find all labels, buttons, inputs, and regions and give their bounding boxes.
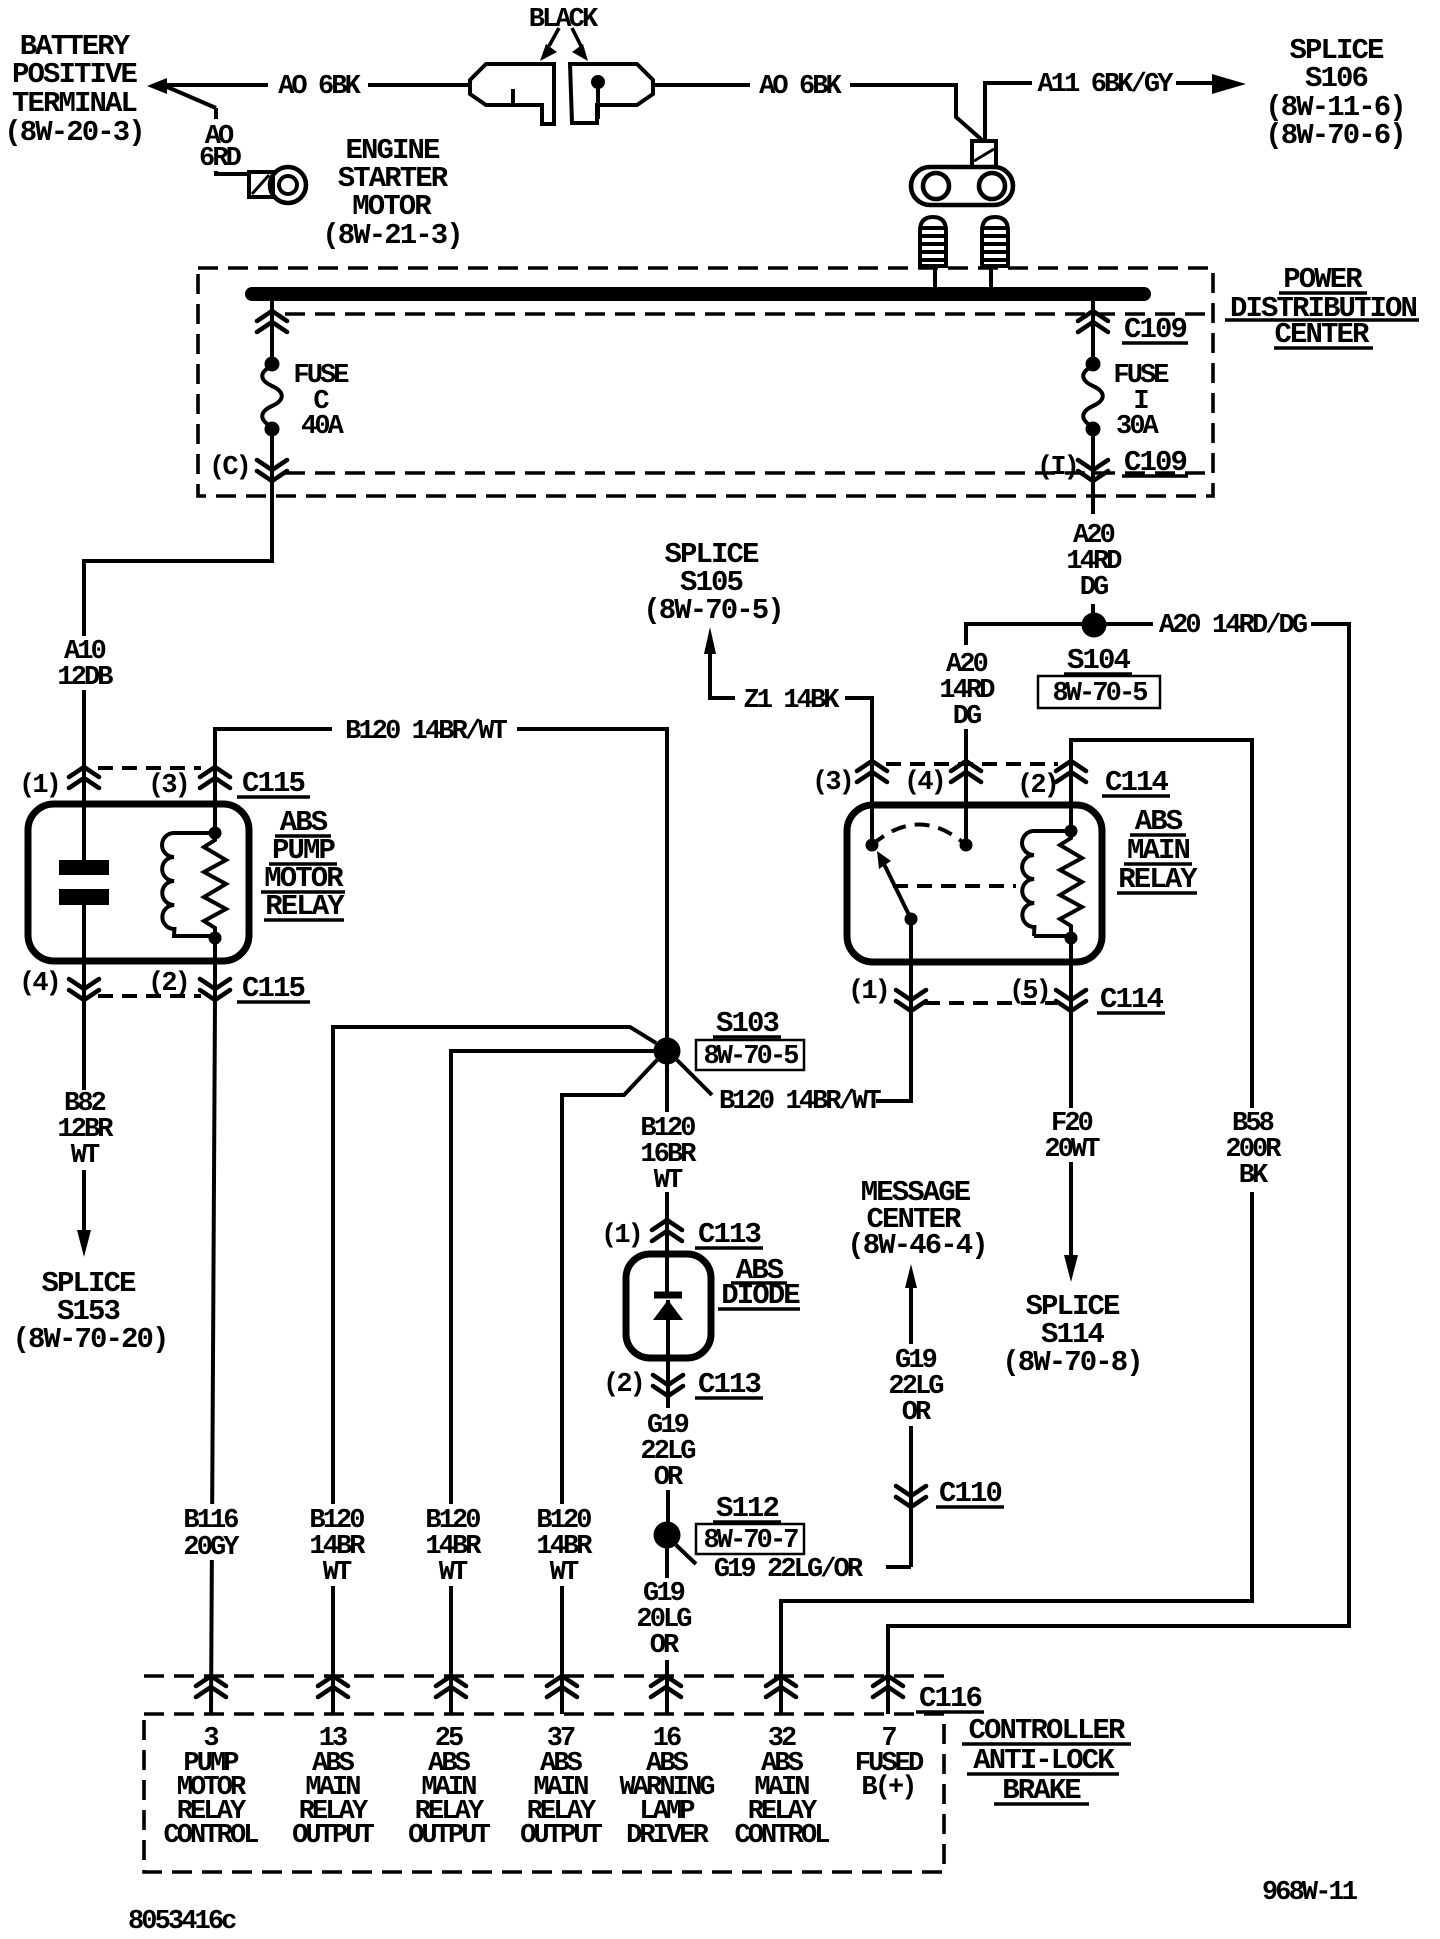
reference box 8W-70-5 at S103 (696, 1040, 804, 1072)
label 968W-11 (1262, 1878, 1358, 1908)
svg-text:S112: S112 (716, 1492, 779, 1525)
pin label (4) C114 (904, 768, 944, 798)
connector chevron C116 pin 25 (436, 1676, 466, 1697)
diode element (653, 1295, 683, 1320)
wire label AO 6BK left (278, 72, 362, 102)
label MESSAGE CENTER (847, 1176, 987, 1262)
wire fuse I to connector I (1091, 429, 1095, 613)
svg-text:WT: WT (550, 1558, 579, 1588)
svg-text:DG: DG (1080, 573, 1108, 603)
svg-text:BRAKE: BRAKE (1002, 1774, 1081, 1807)
svg-text:OR: OR (654, 1463, 684, 1493)
svg-text:DRIVER: DRIVER (626, 1821, 710, 1851)
wire label A11 6BK/GY (1037, 70, 1174, 100)
wire pin3 into switch (870, 761, 874, 845)
BLACK callout arrows (540, 28, 588, 61)
connector chevron C115 pin 4 (69, 979, 99, 1000)
connector chevron (C) (257, 460, 287, 481)
C116 connector dashed line (144, 1674, 944, 1678)
in-line connector C100 left half (470, 64, 554, 124)
switch arm with arrowhead (877, 851, 918, 926)
stud screw left (920, 217, 946, 266)
svg-text:AO 6BK: AO 6BK (759, 72, 843, 102)
pin 37 labels (520, 1724, 603, 1851)
wire S103 branch to C116 pin 37 (562, 1060, 657, 1714)
svg-text:(4): (4) (19, 969, 59, 999)
node coil top (209, 827, 222, 840)
wire into diode (665, 1220, 669, 1295)
wire Z1 14BK from splice S105 (710, 652, 872, 761)
label POWER DISTRIBUTION CENTER (1230, 263, 1417, 351)
connector label C109 bottom (1124, 446, 1187, 479)
wire label B120 14BR/WT horizontal (345, 717, 507, 747)
connector chevron C115 pin 3 (200, 767, 230, 788)
svg-text:G19 22LG/OR: G19 22LG/OR (714, 1555, 864, 1585)
svg-text:OUTPUT: OUTPUT (520, 1821, 603, 1851)
svg-text:A20 14RD/DG: A20 14RD/DG (1159, 611, 1307, 641)
connector label S104 (1067, 644, 1131, 677)
wire B120 16BR WT S103 to diode (665, 1064, 669, 1220)
connector chevron C109 (I) (1078, 460, 1108, 481)
svg-text:WT: WT (439, 1558, 468, 1588)
label ABS DIODE (721, 1254, 800, 1312)
wire label AO 6BK right (759, 72, 843, 102)
connector chevron C114 pin 1 (896, 990, 926, 1011)
connector chevron C115 pin 1 (69, 767, 99, 788)
svg-text:(8W-70-8): (8W-70-8) (1002, 1346, 1142, 1379)
connector chevron PDC bus left (257, 311, 287, 332)
power distribution center dashed box (198, 268, 1213, 496)
wire label B120 16BR WT (640, 1114, 697, 1196)
svg-text:OR: OR (902, 1398, 932, 1428)
battery feed crimp splice (972, 141, 996, 167)
armature linkage dashed line (893, 884, 1016, 888)
svg-text:DG: DG (953, 702, 981, 732)
svg-text:CONTROL: CONTROL (163, 1821, 258, 1851)
relay coil (main relay) (1022, 831, 1071, 936)
wire message center G19 22LG OR (909, 1287, 913, 1567)
pin label (3) C114 (812, 768, 852, 798)
pin label (5) C114 (1009, 977, 1049, 1007)
svg-text:(I): (I) (1037, 453, 1077, 483)
wire label G19 22LG OR message center (888, 1346, 943, 1428)
connector label C110 (939, 1477, 1002, 1510)
svg-text:20GY: 20GY (183, 1533, 240, 1563)
svg-text:(5): (5) (1009, 977, 1049, 1007)
pin label (1) C113 (601, 1221, 641, 1251)
label SPLICE S106 (1265, 34, 1405, 152)
in-line connector C100 right half (570, 64, 653, 123)
svg-text:30A: 30A (1116, 412, 1160, 442)
svg-text:AO 6BK: AO 6BK (278, 72, 362, 102)
node switch common (866, 839, 879, 852)
wire label A20 14RD DG upper (1066, 521, 1122, 603)
battery positive terminal off-page arrow (147, 78, 167, 94)
wire out of diode (666, 1300, 670, 1396)
pin 16 labels (619, 1724, 714, 1851)
label ENGINE STARTER MOTOR (322, 134, 462, 252)
svg-text:8W-70-7: 8W-70-7 (703, 1526, 798, 1556)
svg-text:C109: C109 (1124, 446, 1187, 479)
wire label F20 20WT (1044, 1109, 1100, 1165)
svg-text:(8W-20-3): (8W-20-3) (4, 116, 144, 149)
svg-text:C114: C114 (1105, 766, 1169, 799)
svg-text:(3): (3) (148, 771, 188, 801)
svg-text:WT: WT (323, 1558, 352, 1588)
wire label A20 14RD/DG (1159, 611, 1307, 641)
PDC connector row dashed line top (285, 312, 1212, 316)
bus bar B(+) (252, 287, 1144, 301)
svg-text:C109: C109 (1124, 313, 1187, 346)
svg-text:8053416c: 8053416c (128, 1907, 236, 1934)
wire B116 20GY to C116 pin 3 (211, 1000, 215, 1714)
wire G19 22LG OR diode to S112 (666, 1396, 670, 1524)
connector chevron C114 pin 5 (1056, 990, 1086, 1011)
splice S114 arrow (1064, 1255, 1078, 1282)
svg-text:40A: 40A (301, 412, 345, 442)
label SPLICE S114 (1002, 1290, 1142, 1379)
svg-text:CENTER: CENTER (1274, 318, 1370, 351)
label ABS MAIN RELAY (1118, 805, 1198, 896)
svg-text:BK: BK (1239, 1161, 1269, 1191)
svg-text:S104: S104 (1067, 644, 1131, 677)
svg-text:B116: B116 (183, 1506, 238, 1536)
label CONTROLLER ANTI-LOCK BRAKE (968, 1714, 1126, 1807)
pin label (2) C114 (1017, 771, 1057, 801)
svg-text:B120 14BR/WT: B120 14BR/WT (719, 1087, 881, 1117)
wire pin2 down (213, 938, 217, 1000)
svg-text:Z1 14BK: Z1 14BK (743, 686, 840, 716)
label ABS PUMP MOTOR RELAY (264, 806, 345, 923)
engine starter motor ring terminal (249, 167, 306, 203)
wire S103 branch to C116 pin 25 (451, 1051, 654, 1714)
pin label (3) C115 (148, 771, 188, 801)
splice S105 arrow (704, 627, 716, 654)
svg-text:S103: S103 (716, 1007, 779, 1040)
stud screw right (982, 217, 1008, 266)
wire pin5 down (1069, 938, 1073, 1011)
svg-text:C113: C113 (698, 1368, 761, 1401)
pump motor element plates (59, 860, 109, 905)
ABS diode box (626, 1254, 711, 1358)
node switch contact (960, 839, 973, 852)
svg-text:20WT: 20WT (1044, 1135, 1100, 1165)
svg-text:C110: C110 (939, 1477, 1002, 1510)
wire pin2 to coil node (1069, 761, 1073, 831)
relay coil (pump relay) (162, 833, 215, 936)
pin 32 labels (734, 1724, 829, 1851)
pin label (1) C114 (848, 977, 888, 1007)
svg-text:C115: C115 (242, 767, 305, 800)
svg-text:A11 6BK/GY: A11 6BK/GY (1037, 70, 1174, 100)
svg-text:12DB: 12DB (57, 663, 113, 693)
wire pin3 to relay coil node (213, 767, 217, 833)
wire label G19 22LG/OR (714, 1555, 864, 1585)
svg-text:(8W-70-5): (8W-70-5) (643, 594, 783, 627)
switch throw dashed arc (872, 825, 966, 846)
wire bus to fuse I (1091, 301, 1095, 368)
wire A10 12DB (84, 481, 272, 767)
connector chevron C116 pin 32 (766, 1676, 796, 1697)
splice S153 arrow (77, 1230, 91, 1257)
svg-text:BLACK: BLACK (529, 5, 599, 35)
svg-text:RELAY: RELAY (1118, 863, 1198, 896)
wire S104 left branch A20 14RD DG to C114 pin 4 (966, 624, 1083, 761)
wire label A10 12DB (57, 637, 113, 693)
wire S104 right branch A20 14RD/DG to C116 pin 7 (888, 624, 1349, 1714)
connector chevron C116 pin 7 (873, 1676, 903, 1697)
ABS main relay box (847, 805, 1102, 962)
wire label B116 20GY (183, 1506, 240, 1563)
node S103 (654, 1038, 681, 1065)
svg-text:C113: C113 (698, 1218, 761, 1251)
wire label B120 14BR WT pin13 (309, 1506, 366, 1588)
svg-text:8W-70-5: 8W-70-5 (1052, 679, 1147, 709)
svg-text:C115: C115 (242, 972, 305, 1005)
svg-text:(1): (1) (601, 1221, 641, 1251)
C115 dashed connector line top (98, 766, 201, 770)
svg-text:OUTPUT: OUTPUT (292, 1821, 375, 1851)
connector label C109 top (1124, 313, 1187, 346)
label (C) (209, 453, 249, 483)
wire motor to pin4 (82, 905, 86, 1000)
wire S103 branch B120 14BR/WT to main relay pin 1 (677, 1060, 911, 1101)
wire pin1 from switch arm (876, 919, 911, 1101)
connector chevron C110 (896, 1486, 926, 1507)
wire pin4 into switch contact (964, 624, 968, 845)
wire B58 200R BK pin2 to C116 pin 32 (781, 740, 1252, 1714)
label backgrounds (53, 68, 1311, 1660)
fuse I 30A element (1083, 357, 1103, 437)
wire B82 12BR WT (82, 1000, 86, 1230)
node S112 (654, 1522, 681, 1549)
wire A0 6BK left segment (165, 85, 470, 174)
pin label (1) C115 (19, 771, 59, 801)
connector label C113 top (698, 1218, 761, 1251)
connector chevron C116 pin 3 (196, 1676, 226, 1697)
wire S103 branch to C116 pin 13 (333, 1027, 656, 1714)
svg-text:B(+): B(+) (861, 1773, 914, 1803)
svg-text:6RD: 6RD (199, 144, 242, 174)
connector chevron C114 pin 4 (951, 761, 981, 782)
wire F20 20WT (1069, 1011, 1073, 1255)
pin 25 labels (408, 1724, 491, 1851)
node coil bottom (209, 932, 222, 945)
svg-text:WT: WT (654, 1166, 683, 1196)
pin label (4) C115 (19, 969, 59, 999)
connector chevron C113 pin 2 (653, 1375, 683, 1396)
connector chevron C114 pin 3 (857, 761, 887, 782)
pin 3 labels (163, 1724, 258, 1851)
label BLACK (529, 5, 599, 35)
svg-text:C114: C114 (1100, 983, 1164, 1016)
label SPLICE S105 (643, 538, 783, 627)
pin label (2) C115 (148, 969, 188, 999)
wire S112 to G19 22LG/OR label (676, 1545, 911, 1567)
node main coil bottom (1065, 932, 1078, 945)
svg-text:968W-11: 968W-11 (1262, 1878, 1358, 1908)
wire G19 20LG OR S112 to C116 pin 16 (665, 1548, 669, 1714)
label SPLICE S153 (12, 1267, 167, 1356)
wire label A20 14RD DG lower (939, 650, 995, 732)
svg-text:(1): (1) (848, 977, 888, 1007)
connector label C114 top (1105, 766, 1169, 799)
pin label (2) C113 (603, 1370, 643, 1400)
connector label C115 top (242, 767, 305, 800)
C115 dashed connector line bottom (98, 994, 201, 998)
svg-text:(8W-46-4): (8W-46-4) (847, 1229, 987, 1262)
wire label B82 12BR WT (57, 1089, 114, 1171)
svg-text:(2): (2) (148, 969, 188, 999)
svg-text:(8W-21-3): (8W-21-3) (322, 219, 462, 252)
connector label C116 (919, 1682, 982, 1715)
label (I) (1037, 453, 1077, 483)
connector chevron C116 pin 13 (318, 1676, 348, 1697)
svg-text:(8W-70-6): (8W-70-6) (1265, 119, 1405, 152)
svg-text:(1): (1) (19, 771, 59, 801)
wire label G19 22LG OR center (640, 1411, 695, 1493)
svg-text:C116: C116 (919, 1682, 982, 1715)
message center arrow (905, 1264, 917, 1288)
wire label B120 14BR WT pin25 (425, 1506, 482, 1588)
wire label B58 200R BK (1225, 1109, 1282, 1191)
label 8053416c (128, 1907, 236, 1937)
battery feed eyelet plate (911, 167, 1013, 205)
svg-text:(C): (C) (209, 453, 249, 483)
wire label G19 20LG OR (636, 1579, 691, 1661)
node main coil top (1065, 825, 1078, 838)
wire fuse C to connector C (270, 429, 274, 481)
C114 dashed connector line bottom (925, 1001, 1057, 1005)
fuse C 40A element (262, 357, 282, 437)
connector chevron C116 pin 37 (547, 1676, 577, 1697)
connector label S103 (716, 1007, 779, 1040)
reference box 8W-70-7 at S112 (696, 1524, 804, 1556)
svg-text:8W-70-5: 8W-70-5 (703, 1042, 798, 1072)
svg-text:ANTI-LOCK: ANTI-LOCK (973, 1744, 1115, 1777)
svg-text:B120 14BR/WT: B120 14BR/WT (345, 717, 507, 747)
ABS pump motor relay box (28, 804, 249, 961)
svg-text:WT: WT (71, 1141, 100, 1171)
svg-text:CONTROLLER: CONTROLLER (968, 1714, 1126, 1747)
PDC connector row dashed line bottom (285, 471, 1212, 475)
connector chevron C109 top (1078, 311, 1108, 332)
connector label S112 (716, 1492, 779, 1525)
svg-text:(2): (2) (603, 1370, 643, 1400)
wire A0 6BK right segment (653, 85, 982, 140)
relay resistor (pump relay) (204, 833, 226, 938)
node AO 6RD label gap (196, 119, 244, 171)
svg-text:OR: OR (650, 1631, 680, 1661)
svg-text:RELAY: RELAY (265, 890, 345, 923)
pin 13 labels (292, 1724, 375, 1851)
svg-text:(3): (3) (812, 768, 852, 798)
wire label B120 14BR/WT branch (719, 1087, 881, 1117)
connector label C113 bottom (698, 1368, 761, 1401)
label BATTERY POSITIVE TERMINAL (4, 30, 144, 149)
stud wires into bus bar (935, 266, 991, 290)
splice S106 off-page arrow (1212, 74, 1246, 94)
svg-text:(2): (2) (1017, 771, 1057, 801)
label FUSE C 40A (293, 361, 349, 442)
relay resistor (main relay) (1060, 831, 1082, 938)
connector chevron C116 pin 16 (651, 1676, 681, 1697)
C114 dashed connector line top (886, 762, 1058, 766)
wire A11 6BK/GY (985, 83, 1213, 141)
connector chevron C115 pin 2 (200, 979, 230, 1000)
svg-text:(8W-70-20): (8W-70-20) (12, 1323, 167, 1356)
wire bus to fuse C (270, 301, 274, 368)
wire label B120 14BR WT pin37 (536, 1506, 593, 1588)
connector label C115 bottom (242, 972, 305, 1005)
pin 7 labels (855, 1724, 924, 1803)
connector label C114 bottom (1100, 983, 1164, 1016)
wire label Z1 14BK (743, 686, 840, 716)
svg-text:CONTROL: CONTROL (734, 1821, 829, 1851)
svg-text:OUTPUT: OUTPUT (408, 1821, 491, 1851)
wire label AO 6RD (199, 122, 242, 174)
node S104 (1082, 613, 1107, 638)
svg-text:(4): (4) (904, 768, 944, 798)
label FUSE I 30A (1113, 361, 1169, 442)
wire pin1 into motor (82, 767, 86, 860)
connector chevron C114 pin 2 (1056, 761, 1086, 782)
controller anti-lock brake dashed box (144, 1714, 944, 1872)
connector chevron C113 pin 1 (652, 1220, 682, 1241)
reference box 8W-70-5 at S104 (1038, 676, 1160, 709)
wire B120 14BR/WT pump relay pin3 to S103 (215, 729, 667, 1038)
